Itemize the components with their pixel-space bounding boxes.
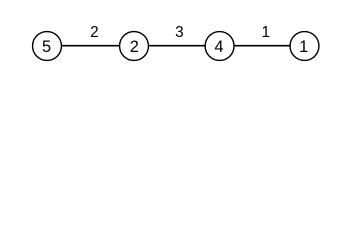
svg-text:5: 5: [42, 38, 51, 56]
svg-text:2: 2: [90, 24, 99, 41]
svg-text:1: 1: [262, 24, 271, 41]
svg-text:2: 2: [130, 38, 139, 56]
svg-text:3: 3: [175, 24, 184, 41]
svg-text:1: 1: [299, 38, 308, 56]
svg-text:4: 4: [214, 38, 223, 56]
